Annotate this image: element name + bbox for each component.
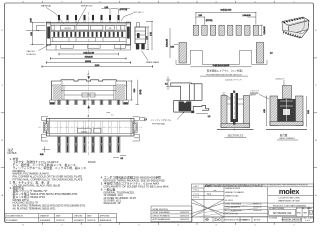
front view body	[46, 22, 130, 45]
mated drawing view	[250, 79, 310, 141]
svg-text:5.75: 5.75	[150, 32, 152, 36]
label CAV. NO. & DIE NO.	[27, 46, 49, 57]
pattern right nail pad	[256, 43, 264, 64]
svg-text:8: 8	[23, 224, 24, 226]
svg-text:REV: REV	[309, 208, 312, 210]
svg-text:AKANESHIGE: AKANESHIGE	[100, 219, 112, 222]
svg-text:3.00: 3.00	[308, 110, 310, 114]
svg-text:CUSTOMER: CUSTOMER	[269, 218, 278, 220]
svg-text:DOC TYPE: PSD: DOC TYPE: PSD	[225, 214, 239, 216]
svg-text:4.50: 4.50	[31, 32, 33, 36]
svg-text:▽ D 0.2: ▽ D 0.2	[193, 196, 199, 199]
side profile right of front view	[135, 23, 146, 50]
front view left dims	[26, 18, 45, 44]
svg-text:▽ B 0.1: ▽ B 0.1	[193, 189, 199, 192]
svg-text:7: 7	[62, 224, 63, 226]
svg-text:ANGULAR: ±3°: ANGULAR: ±3°	[103, 201, 121, 205]
svg-text:5.90: 5.90	[134, 89, 136, 93]
svg-text:CKT. NO. 1: CKT. NO. 1	[133, 12, 144, 14]
svg-text:TRADE MARK: TRADE MARK	[146, 61, 160, 64]
bottom symbol strip	[204, 217, 268, 222]
svg-text:2: 2	[255, 1, 256, 3]
long diagonal leaders	[196, 203, 258, 217]
svg-text:5:1: 5:1	[207, 192, 211, 196]
pattern top dims	[196, 9, 266, 36]
svg-text:4.00: 4.00	[146, 36, 148, 40]
svg-text:(PITCH): (PITCH)	[206, 20, 213, 22]
top view dim 0.30 bottom-left	[40, 147, 50, 157]
dim (PITCH) front	[102, 7, 131, 14]
front view terminal row	[51, 32, 126, 42]
svg-text:嵌合図: 嵌合図	[280, 133, 288, 137]
svg-text:FITTING NAIL: FITTING NAIL	[152, 122, 166, 125]
pattern board outline	[176, 50, 273, 64]
svg-text:1: 1	[294, 224, 295, 226]
centerline front view	[88, 12, 90, 52]
svg-text:DIMENSION UNITS: DIMENSION UNITS	[225, 188, 241, 190]
svg-text:APPR: AKANESHIGE: APPR: AKANESHIGE	[153, 218, 171, 221]
svg-text:6: 6	[100, 224, 101, 226]
top view centerlines	[88, 114, 90, 156]
svg-text:502352: 502352	[64, 28, 70, 30]
svg-text:DRWN: SHISHIBATA: DRWN: SHISHIBATA	[225, 202, 242, 205]
svg-text:WAFER ASSY 3P SMT: WAFER ASSY 3P SMT	[278, 199, 300, 202]
top view tails row2	[58, 145, 121, 153]
top view dim 0.5 bottom	[113, 156, 126, 160]
front view lower dims	[42, 51, 153, 68]
svg-text:A4 SIZE: A4 SIZE	[254, 218, 261, 221]
svg-text:SERIES NO.: SERIES NO.	[81, 6, 93, 8]
svg-text:502352: 502352	[81, 131, 87, 133]
svg-text:GENERAL TOLERANCE: GENERAL TOLERANCE	[225, 191, 245, 194]
svg-text:1.2: 1.2	[270, 53, 273, 55]
svg-text:PRODUCT CUSTOMER DRAWING: PRODUCT CUSTOMER DRAWING	[273, 204, 307, 207]
svg-text:1.00±0.05: 1.00±0.05	[243, 15, 251, 17]
svg-text:8.60±0.30: 8.60±0.30	[85, 57, 93, 59]
svg-text:2: 2	[255, 224, 256, 226]
svg-text:molex: molex	[279, 187, 300, 196]
svg-text:HOUSING: HOUSING	[250, 93, 259, 95]
svg-text:2009/02/16: 2009/02/16	[56, 220, 65, 222]
section Z-Z view	[217, 78, 259, 137]
front view slot row	[51, 26, 124, 31]
svg-text:参考基板レイアウト（ハンダ面）: 参考基板レイアウト（ハンダ面）	[207, 69, 245, 73]
svg-text:SHEET NUMBER: SHEET NUMBER	[302, 218, 315, 220]
fitting nail bracket left	[41, 117, 48, 141]
svg-text:2×(N-1)=6.00: 2×(N-1)=6.00	[221, 9, 232, 12]
svg-text:4: 4	[178, 1, 179, 3]
svg-text:P1 RELEASED: P1 RELEASED	[6, 219, 18, 222]
section arrow Z bottom + dim 1.2	[87, 105, 113, 118]
pattern pads row	[193, 25, 258, 35]
svg-text:4.50: 4.50	[264, 109, 266, 113]
svg-text:2.20±0.05: 2.20±0.05	[264, 27, 266, 35]
svg-text:DRAWN BY: DRAWN BY	[40, 214, 50, 217]
svg-text:2009/02/16: 2009/02/16	[87, 220, 96, 222]
svg-text:3: 3	[216, 1, 217, 3]
svg-text:1 of 1: 1 of 1	[305, 220, 311, 222]
front view bottom step	[46, 45, 130, 50]
svg-text:CHECKED: CHECKED	[74, 215, 83, 217]
bottom view right dim	[127, 80, 142, 105]
svg-text:DRAWN ON CAD: DRAWN ON CAD	[225, 195, 239, 198]
svg-text:CAV. NO.: CAV. NO.	[27, 50, 36, 53]
svg-text:12.60: 12.60	[95, 65, 100, 67]
section arrow Z top	[87, 71, 90, 114]
label TRADE MARK	[142, 51, 160, 65]
pattern left nail pad	[167, 28, 187, 63]
svg-text:1.2: 1.2	[111, 114, 114, 116]
pattern lower dim	[190, 64, 251, 67]
svg-text:SECTION Z-Z: SECTION Z-Z	[228, 135, 244, 138]
svg-text:CHKD: HKOMATSU: CHKD: HKOMATSU	[225, 206, 241, 209]
top view marking boxes	[78, 129, 102, 134]
svg-text:502351-*0*: 502351-*0*	[276, 79, 285, 81]
svg-text:4D: 49999: 4D: 49999	[225, 200, 233, 202]
fitting nail bracket right	[132, 117, 139, 141]
svg-text:0.95: 0.95	[30, 18, 32, 22]
svg-text:(10.60): (10.60)	[85, 61, 91, 63]
top view dim 1.2 right	[140, 118, 147, 121]
svg-text:(PITCH): (PITCH)	[120, 9, 128, 11]
svg-text:C=(N-1)×2+3.2±0.05: C=(N-1)×2+3.2±0.05	[213, 64, 230, 67]
pattern caption	[200, 69, 248, 77]
svg-text:SHISHIBATA: SHISHIBATA	[40, 219, 51, 222]
svg-text:MATERIAL: MATERIAL	[41, 5, 52, 8]
crossed cells	[192, 199, 225, 217]
svg-text:▽ C 0.2: ▽ C 0.2	[193, 192, 199, 195]
svg-text:APPROVED: APPROVED	[100, 214, 110, 217]
svg-text:8: 8	[23, 1, 24, 3]
svg-text:DOCUMENT STATUS: DOCUMENT STATUS	[6, 214, 23, 217]
front view top pins	[58, 15, 120, 23]
svg-text:GENERAL MARKET: GENERAL MARKET	[282, 218, 302, 221]
svg-text:MATED DRAWING: MATED DRAWING	[279, 137, 295, 140]
svg-text:4: 4	[178, 224, 179, 226]
top view tails row1	[58, 136, 121, 144]
svg-text:PCB PATTERN LAYOUT(IN CIRCUIT): PCB PATTERN LAYOUT(IN CIRCUIT)	[206, 73, 242, 76]
svg-text:3: 3	[216, 224, 217, 226]
label MATERIAL	[41, 5, 64, 24]
svg-text:7: 7	[62, 1, 63, 3]
svg-text:2.00: 2.00	[198, 15, 202, 17]
svg-text:DRAWING: DRAWING	[242, 218, 251, 221]
label SERIES NO.	[77, 6, 94, 26]
svg-text:2009/02/16: 2009/02/16	[253, 207, 262, 209]
svg-text:0.5: 0.5	[121, 158, 124, 160]
svg-text:5: 5	[139, 1, 140, 3]
svg-text:(6.80): (6.80)	[140, 89, 142, 94]
svg-text:2009/02/16: 2009/02/16	[253, 203, 262, 205]
svg-text:0.1: 0.1	[165, 84, 168, 86]
svg-text:SD-560020-001: SD-560020-001	[273, 211, 292, 215]
svg-text:3.80±0.05: 3.80±0.05	[167, 39, 169, 47]
isometric view of connector	[282, 17, 309, 38]
svg-text:& DIE NO.: & DIE NO.	[27, 54, 37, 56]
svg-text:NOTES: NOTES	[8, 151, 17, 155]
mid text column	[225, 188, 262, 216]
svg-text:2.20±0.05（キャリア）: 2.20±0.05（キャリア）	[225, 78, 243, 81]
top view body	[47, 119, 135, 137]
svg-text:ROHS: ROHS	[88, 160, 96, 164]
side profile dims	[146, 22, 153, 50]
svg-text:▽ A 0.1: ▽ A 0.1	[193, 185, 199, 188]
svg-text:2009/02/16: 2009/02/16	[180, 219, 189, 221]
svg-text:PSD: PSD	[297, 213, 302, 215]
svg-text:2009/02/16: 2009/02/16	[253, 210, 262, 212]
description	[278, 198, 300, 203]
bottom view leads	[50, 100, 129, 105]
svg-text:HKOMATSU: HKOMATSU	[74, 219, 84, 222]
bottom view body	[52, 80, 127, 100]
fitting nail side view	[151, 77, 211, 126]
svg-text:5: 5	[139, 224, 140, 226]
left symbols column	[192, 184, 225, 222]
svg-text:1: 1	[294, 1, 295, 3]
svg-text:1.2: 1.2	[144, 119, 147, 121]
svg-text:0.30: 0.30	[40, 154, 44, 156]
svg-text:AU PLATING TERMINAL 56161-8*01: AU PLATING TERMINAL 56161-8*01	[13, 207, 57, 211]
label CKT. NO. 1	[121, 12, 144, 21]
svg-text:1.8: 1.8	[208, 116, 211, 118]
svg-text:6: 6	[100, 1, 101, 3]
svg-text:APPD: AKANESHIGE: APPD: AKANESHIGE	[225, 209, 242, 212]
svg-text:0.60: 0.60	[171, 47, 175, 49]
mid cells	[204, 187, 224, 223]
